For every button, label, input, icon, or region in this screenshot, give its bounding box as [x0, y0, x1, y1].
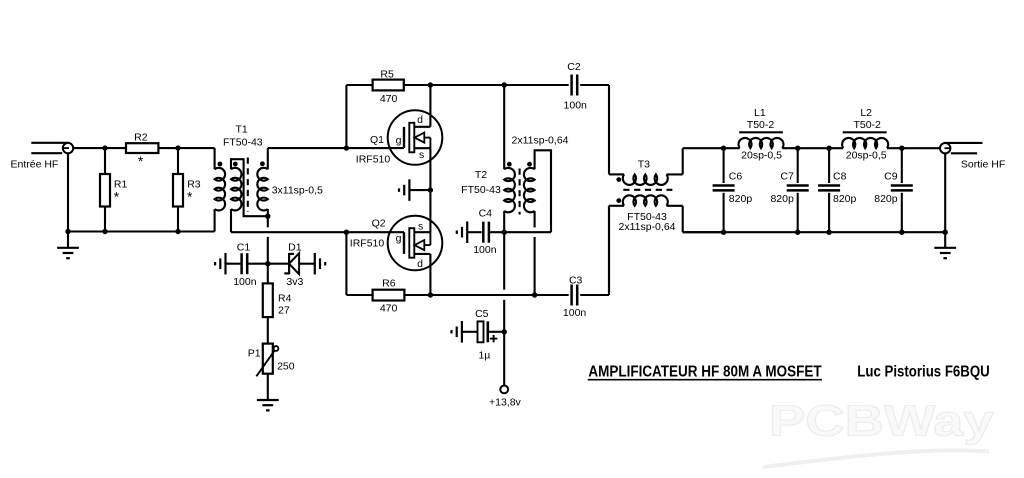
svg-text:27: 27 [278, 305, 290, 317]
node R6/drain Q2 [428, 292, 433, 297]
node rail/T2 [502, 82, 507, 87]
label R2 [134, 132, 148, 144]
T1 primary phase dot [218, 162, 223, 167]
svg-text:820p: 820p [729, 193, 753, 205]
T3 top phase dot [616, 177, 621, 182]
svg-text:g: g [396, 134, 402, 146]
T1 middle winding [231, 159, 268, 232]
label T2 2x11sp-0,64 [511, 135, 568, 147]
svg-text:Q2: Q2 [372, 218, 386, 230]
label C9 820p [874, 193, 898, 205]
svg-text:1µ: 1µ [478, 350, 490, 362]
T1 center tap node [265, 214, 270, 219]
wire input ground rail [68, 153, 215, 231]
label T3 [638, 158, 650, 170]
resistor R1 [100, 148, 110, 231]
label T1 3x11sp-0,5 [272, 185, 323, 197]
svg-text:100n: 100n [473, 244, 497, 256]
T3 bottom phase dot [616, 198, 621, 203]
label R6 470 [380, 303, 398, 315]
label P1 [248, 347, 261, 359]
svg-text:PCBWay: PCBWay [769, 397, 994, 446]
label C5 1u [478, 350, 490, 362]
svg-text:*: * [187, 189, 193, 205]
svg-text:20sp-0,5: 20sp-0,5 [846, 149, 887, 161]
mosfet Q1 circle [388, 110, 443, 165]
node R2/R3 [175, 145, 180, 150]
svg-text:C1: C1 [237, 242, 251, 254]
label C4 100n [473, 244, 497, 256]
node rail/connector [65, 229, 70, 234]
svg-text:L1: L1 [754, 107, 766, 119]
node T2 feed / C4 [502, 230, 507, 235]
input connector J1 Entree HF [31, 143, 73, 154]
wire T1 tap to bias node (crosses gate rail) [267, 216, 269, 264]
label P1 250 [277, 360, 295, 372]
T3 bottom winding [609, 195, 724, 232]
svg-text:*: * [114, 189, 120, 205]
node C7 bottom [795, 230, 800, 235]
label D1 3v3 [286, 276, 303, 288]
ground input [57, 232, 79, 259]
Q2 pin label d [417, 258, 423, 270]
label R5 470 [380, 93, 398, 105]
svg-text:T2: T2 [475, 169, 487, 181]
node gate Q1 / R5 [344, 145, 349, 150]
svg-text:100n: 100n [563, 307, 587, 319]
wire bottom rail to C3 [430, 294, 568, 296]
label R4 [278, 293, 292, 305]
label T3 2x11sp-0,64 [618, 221, 675, 233]
svg-text:d: d [417, 114, 423, 126]
node C5 / supply [502, 329, 507, 334]
svg-text:Luc Pistorius F6BQU: Luc Pistorius F6BQU [857, 364, 989, 381]
resistor R3 [173, 148, 183, 231]
capacitor C1 [215, 253, 268, 275]
svg-text:C9: C9 [884, 171, 898, 183]
capacitor C6 [713, 148, 735, 232]
node C6 bottom [721, 230, 726, 235]
label T2 FT50-43 [461, 184, 501, 196]
mosfet Q2 circle [388, 216, 443, 271]
label R2 star [138, 153, 144, 169]
svg-text:FT50-43: FT50-43 [223, 137, 263, 149]
node input/R1 [102, 145, 107, 150]
wire input to R1 R2 [73, 147, 126, 149]
svg-text:Q1: Q1 [370, 134, 384, 146]
T2 left phase dot [507, 162, 512, 167]
label Sortie HF [961, 159, 1005, 171]
Q1 arrow [415, 133, 431, 149]
wire top rail to C2 [430, 84, 568, 86]
Q2 pin label g [396, 233, 402, 245]
T3 core dashed line [623, 189, 672, 191]
svg-text:T1: T1 [235, 124, 247, 136]
label C6 [729, 171, 743, 183]
T1 middle phase dot [233, 162, 238, 167]
ground output [934, 232, 956, 258]
svg-text:C3: C3 [569, 275, 583, 287]
Q1 channel bar [409, 123, 414, 153]
node rail/R1 [102, 229, 107, 234]
label C3 100n [563, 307, 587, 319]
Q2 pin label s [418, 220, 423, 232]
capacitor C2 [572, 75, 609, 175]
svg-text:T3: T3 [638, 158, 650, 170]
label C8 [833, 171, 847, 183]
transformer T1 primary winding [215, 148, 226, 231]
label L2 20sp-0,5 [846, 149, 887, 161]
label R6 [382, 277, 396, 289]
label C2 [567, 61, 581, 73]
label R1 [114, 179, 128, 191]
svg-text:820p: 820p [874, 193, 898, 205]
svg-text:C5: C5 [475, 308, 489, 320]
output connector J2 Sortie HF [940, 143, 983, 154]
node C8 bottom [826, 230, 831, 235]
Q2 drain lead [414, 254, 430, 295]
title AMPLIFICATEUR [588, 364, 822, 381]
svg-text:D1: D1 [288, 242, 302, 254]
label C8 820p [833, 193, 857, 205]
node bias C1 D1 R4 [265, 261, 270, 266]
node C9 top [899, 146, 904, 151]
node R5/drain Q1 [428, 82, 433, 87]
T1 secondary winding [257, 148, 268, 216]
label C4 [479, 207, 493, 219]
label Q2 IRF510 [350, 237, 385, 249]
label C5 [475, 308, 489, 320]
node rail/R3 [175, 229, 180, 234]
node C7 top [795, 146, 800, 151]
svg-text:100n: 100n [564, 99, 588, 111]
svg-text:3x11sp-0,5: 3x11sp-0,5 [272, 185, 323, 197]
resistor R6 [346, 232, 430, 300]
T2 core dashed line [519, 169, 521, 215]
Q2 gate bar [403, 232, 405, 254]
label Entree HF [11, 159, 59, 171]
label T3 FT50-43 [627, 211, 667, 223]
Q2 channel bar [409, 228, 414, 258]
svg-text:20sp-0,5: 20sp-0,5 [741, 149, 782, 161]
svg-text:820p: 820p [833, 193, 857, 205]
wire T2 centre feed [504, 231, 551, 233]
Q1 source lead [414, 148, 430, 190]
label C9 [884, 171, 898, 183]
svg-text:P1: P1 [248, 347, 261, 359]
inductor L2 [842, 132, 888, 148]
svg-text:s: s [419, 149, 424, 161]
label Q1 [370, 134, 384, 146]
capacitor C3 [572, 206, 609, 306]
svg-text:R5: R5 [380, 69, 394, 81]
svg-text:C7: C7 [780, 171, 794, 183]
svg-text:+13,8v: +13,8v [489, 397, 522, 409]
node sources Q1 Q2 [428, 187, 433, 192]
svg-text:L2: L2 [860, 107, 872, 119]
Q2 arrow [415, 232, 431, 250]
T1 secondary phase dot [260, 161, 265, 166]
node C8 top [826, 146, 831, 151]
label C2 100n [564, 99, 588, 111]
label L1 [754, 107, 766, 119]
node C9 bottom [899, 230, 904, 235]
potentiometer P1 [256, 344, 278, 400]
svg-text:T50-2: T50-2 [747, 119, 775, 131]
wire T1 to Q1 gate [268, 147, 404, 149]
wire L1 to L2 [782, 147, 843, 149]
svg-text:Sortie HF: Sortie HF [961, 159, 1005, 171]
label R3 [187, 179, 201, 191]
T1 core dashed line [247, 158, 249, 213]
resistor R5 [346, 80, 430, 149]
svg-text:3v3: 3v3 [286, 276, 303, 288]
svg-text:R2: R2 [134, 132, 148, 144]
svg-text:T50-2: T50-2 [853, 119, 881, 131]
label +13,8v [489, 397, 522, 409]
svg-text:C6: C6 [729, 171, 743, 183]
node gate Q2 / R6 [344, 230, 349, 235]
label R1 star [114, 189, 120, 205]
svg-text:820p: 820p [770, 193, 794, 205]
svg-text:IRF510: IRF510 [350, 237, 385, 249]
label Q1 IRF510 [356, 154, 391, 166]
resistor R2 [126, 143, 158, 153]
svg-text:470: 470 [380, 303, 398, 315]
label C1 100n [233, 276, 257, 288]
svg-text:g: g [396, 233, 402, 245]
wire T3 bottom left [608, 206, 610, 295]
Q1 pin label s [419, 149, 424, 161]
svg-text:AMPLIFICATEUR HF 80M A MOSFET: AMPLIFICATEUR HF 80M A MOSFET [588, 364, 822, 381]
label Q2 [372, 218, 386, 230]
resistor R4 [263, 264, 273, 344]
capacitor C9 [891, 148, 913, 232]
label L1 20sp-0,5 [741, 149, 782, 161]
Q1 pin label g [396, 134, 402, 146]
svg-text:d: d [417, 258, 423, 270]
svg-text:Entrée HF: Entrée HF [11, 159, 59, 171]
wire T1 bottom to Q2 gate rail [231, 231, 404, 233]
svg-text:R4: R4 [278, 293, 292, 305]
wire L2 to output [887, 147, 940, 149]
svg-text:FT50-43: FT50-43 [461, 184, 501, 196]
svg-text:s: s [418, 220, 423, 232]
label C3 [569, 275, 583, 287]
svg-text:470: 470 [380, 93, 398, 105]
svg-text:C2: C2 [567, 61, 581, 73]
label C1 [237, 242, 251, 254]
svg-text:2x11sp-0,64: 2x11sp-0,64 [511, 135, 568, 147]
label T2 [475, 169, 487, 181]
wire output connector to ground [944, 153, 946, 232]
label C6 820p [729, 193, 753, 205]
T2 right winding [524, 150, 551, 295]
terminal +13,8v [500, 386, 508, 394]
label C7 820p [770, 193, 794, 205]
svg-text:IRF510: IRF510 [356, 154, 391, 166]
node rail/T2 secondary [532, 292, 537, 297]
watermark PCBWay [763, 397, 994, 468]
title author [857, 364, 989, 381]
wire R2 right to R3 and T1 [158, 147, 214, 149]
wire output ground rail [683, 231, 946, 233]
svg-text:C4: C4 [479, 207, 493, 219]
label L1 T50-2 [747, 119, 775, 131]
wire T2 feed to C5 (crosses rail) [503, 232, 505, 332]
inductor L1 [738, 132, 783, 148]
label T1 FT50-43 [223, 137, 263, 149]
T2 left winding [504, 85, 515, 232]
ground sources [399, 179, 430, 201]
label R3 star [187, 189, 193, 205]
T2 right phase dot [527, 162, 532, 167]
wire supply [503, 332, 505, 386]
node output ground [943, 230, 948, 235]
capacitor C8 [818, 148, 840, 232]
svg-text:100n: 100n [233, 276, 257, 288]
capacitor C7 [787, 148, 809, 232]
label L2 [860, 107, 872, 119]
Q1 drain lead [414, 85, 430, 127]
svg-text:250: 250 [277, 360, 295, 372]
label L2 T50-2 [853, 119, 881, 131]
svg-text:C8: C8 [833, 171, 847, 183]
capacitor C4 [457, 221, 504, 243]
label D1 [288, 242, 302, 254]
label R4 27 [278, 305, 290, 317]
capacitor C5 electrolytic [452, 321, 505, 343]
Q1 pin label d [417, 114, 423, 126]
svg-text:*: * [138, 153, 144, 169]
label T1 [235, 124, 247, 136]
label R5 [380, 69, 394, 81]
svg-text:2x11sp-0,64: 2x11sp-0,64 [618, 221, 675, 233]
T3 top winding [609, 148, 740, 185]
Q1 gate bar [403, 127, 405, 148]
node C6 top [721, 146, 726, 151]
Q2 source lead [414, 190, 430, 232]
zener diode D1 [268, 253, 325, 275]
ground P1 [257, 400, 279, 410]
svg-text:R6: R6 [382, 277, 396, 289]
label C7 [780, 171, 794, 183]
